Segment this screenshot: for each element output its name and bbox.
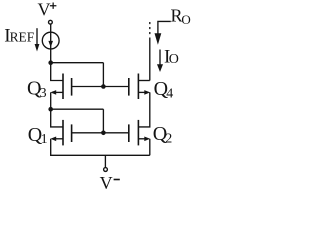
wire Q4 drain solid bbox=[149, 38, 151, 81]
label Q4 bbox=[154, 78, 174, 101]
current direction arrow IREF bbox=[35, 28, 40, 51]
svg-text:V: V bbox=[100, 173, 113, 192]
wire lower riser to bottom gate bus bbox=[102, 109, 104, 133]
label IO bbox=[164, 47, 179, 68]
label Q2 bbox=[153, 123, 173, 146]
svg-text:1: 1 bbox=[41, 132, 48, 147]
svg-text:V: V bbox=[38, 0, 51, 20]
node B junction bbox=[48, 107, 53, 112]
svg-text:4: 4 bbox=[166, 86, 173, 101]
resistance pointer RO bbox=[155, 21, 171, 44]
wire Q2 source to rail bbox=[149, 139, 151, 156]
label Q1 bbox=[28, 124, 48, 147]
wire Q3 source to node B bbox=[50, 92, 52, 109]
terminal V+ bbox=[49, 20, 53, 24]
current source IREF bbox=[42, 32, 59, 49]
transistor Q3 bbox=[50, 74, 71, 100]
wire Q4 source to Q2 drain bbox=[138, 92, 149, 127]
wire node B to Q1 drain bbox=[51, 109, 63, 127]
label V+ bbox=[38, 0, 57, 20]
label Q3 bbox=[27, 78, 47, 101]
wire V+ to node A through current source bbox=[50, 24, 52, 63]
wire V- stub bbox=[104, 155, 106, 167]
svg-text:O: O bbox=[181, 12, 190, 27]
wire Q1 source to rail bbox=[51, 139, 150, 156]
current arrow IO bbox=[157, 50, 163, 73]
svg-text:3: 3 bbox=[40, 86, 47, 101]
transistor Q4 bbox=[129, 74, 150, 100]
junction on top gate bus bbox=[101, 84, 106, 89]
wire node A to Q3 drain bbox=[51, 63, 63, 81]
svg-text:O: O bbox=[169, 52, 179, 67]
wire bottom gate bus Q1-Q2 bbox=[72, 132, 129, 134]
wire Q4 drain dashed up bbox=[149, 22, 151, 36]
junction on bottom gate bus bbox=[101, 131, 106, 136]
transistor Q1 bbox=[50, 120, 71, 145]
transistor Q2 bbox=[129, 120, 150, 145]
svg-text:2: 2 bbox=[165, 131, 172, 146]
node A junction bbox=[48, 60, 53, 65]
label IREF bbox=[4, 26, 34, 47]
wire node A to riser bbox=[51, 62, 104, 64]
label V- bbox=[100, 173, 120, 193]
wire riser to top gate bus bbox=[102, 63, 104, 87]
wire Q4 drain lead bbox=[138, 80, 149, 82]
terminal V- bbox=[104, 168, 108, 172]
label RO bbox=[171, 6, 191, 28]
svg-text:REF: REF bbox=[10, 30, 35, 45]
wire node B to lower riser bbox=[51, 108, 104, 110]
wire top gate bus Q3-Q4 bbox=[72, 86, 129, 88]
